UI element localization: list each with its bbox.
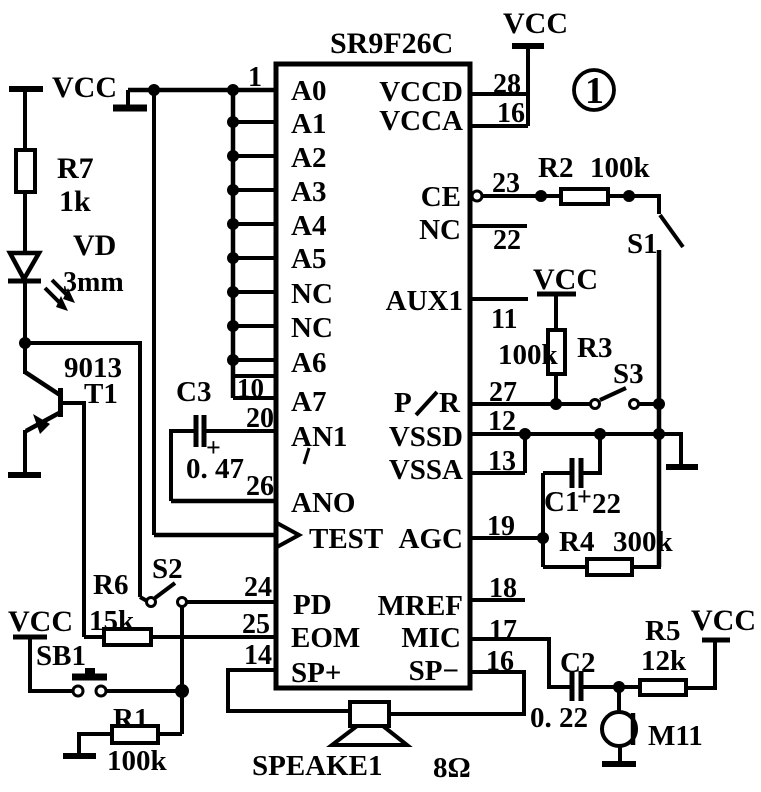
pin 22 number label (493, 225, 521, 256)
S1 label (627, 228, 658, 260)
pin 27 number label (489, 377, 517, 408)
wire address bus vertical (231, 90, 236, 398)
wire SP+ (pin 14) to speaker (228, 670, 350, 711)
VCC power bar (SB1) (13, 635, 47, 640)
svg-text:SP−: SP− (409, 655, 459, 687)
svg-text:12: 12 (488, 406, 516, 437)
wire VD cathode down to node (23, 281, 27, 374)
R5 label (645, 615, 680, 647)
wire C2 to R5 (581, 685, 640, 689)
wire C1 right up to VSSD (581, 434, 600, 473)
capacitor C1 left plate (570, 458, 575, 488)
node A5 (227, 252, 239, 264)
node A6 (227, 354, 239, 366)
wire VSSA stub (pin 13) (470, 471, 525, 475)
C2 label (560, 647, 595, 679)
VCC power bar symbol (top left, feeds R7) (9, 86, 43, 92)
resistor R3 (548, 330, 565, 374)
pin VSSD label (389, 421, 463, 453)
svg-text:R5: R5 (645, 615, 680, 647)
wire C1 left to AGC vertical (543, 471, 572, 475)
pin NC label (left upper) (291, 278, 333, 310)
wire C3 left loop (171, 431, 196, 501)
svg-text:300k: 300k (613, 526, 674, 558)
pin MIC label (401, 622, 461, 654)
C1 label with polarity (544, 482, 621, 520)
wire AGC vertical (C1/R4 left) (541, 473, 545, 567)
R6 value 15k (89, 605, 135, 637)
svg-text:0. 22: 0. 22 (530, 702, 588, 734)
svg-text:NC: NC (419, 214, 461, 246)
circled figure number 1 (574, 70, 614, 110)
svg-text:C1: C1 (544, 486, 579, 518)
pin A3 label (291, 176, 326, 208)
LED VD cathode bar (8, 279, 41, 284)
pin 17 number label (489, 615, 517, 646)
wire MIC (pin 17) to C2 (470, 639, 570, 687)
svg-text:11: 11 (491, 304, 517, 335)
svg-text:A1: A1 (291, 108, 326, 140)
node A2 (227, 150, 239, 162)
wire A2 stub (233, 154, 276, 158)
pin A7 label (291, 386, 326, 418)
pin 13 number label (488, 446, 516, 477)
wire PD (pin 24) to S2 (187, 600, 276, 604)
svg-text:1k: 1k (59, 185, 91, 218)
R7 label (57, 152, 94, 185)
node A3 (227, 184, 239, 196)
VCC rail wire to IC pin 1 (128, 88, 276, 93)
svg-text:27: 27 (489, 377, 517, 408)
svg-text:C3: C3 (176, 376, 211, 408)
svg-text:22: 22 (592, 488, 621, 520)
pin EOM label (291, 622, 360, 654)
svg-text:8Ω: 8Ω (433, 752, 471, 784)
wire A5 stub (233, 256, 276, 260)
svg-text:CE: CE (421, 181, 461, 213)
svg-text:15k: 15k (89, 605, 135, 637)
svg-text:A6: A6 (291, 347, 326, 379)
transistor T1 emitter lead with arrow (26, 412, 61, 434)
wire R2 to S1 (608, 196, 659, 214)
node R2 right (623, 190, 635, 202)
svg-text:23: 23 (492, 168, 520, 199)
svg-text:S1: S1 (627, 228, 658, 260)
wire pin 22 stub (NC) (470, 224, 527, 228)
wire A4 stub (233, 222, 276, 226)
node C2/R5/M11 (613, 681, 625, 693)
node rail/TEST drop (148, 84, 160, 96)
wire pin 16 stub (VCCA) (470, 124, 528, 128)
ground (M11) (602, 761, 636, 767)
pin A4 label (291, 210, 326, 242)
pin MREF label (378, 590, 463, 622)
pin VCCD label (379, 76, 463, 108)
pin SP+ label (291, 657, 341, 689)
wire VSSD line (pin 12) (470, 432, 681, 436)
wire R1 left lead to ground (79, 734, 112, 756)
resistor R6 (104, 629, 151, 645)
wire pin 28 stub (VCCD) (470, 92, 528, 96)
wire R3 to P/R line (554, 374, 558, 404)
wire VCC down to pins 28/16 (526, 46, 530, 126)
svg-text:SR9F26C: SR9F26C (330, 27, 453, 60)
pin NC label (right) (419, 214, 461, 246)
svg-text:+: + (577, 482, 592, 511)
C3 plus sign (206, 433, 221, 462)
svg-text:A2: A2 (291, 142, 326, 174)
svg-text:1: 1 (248, 62, 262, 93)
svg-text:VSSD: VSSD (389, 421, 463, 453)
pin VSSA label (389, 454, 463, 486)
wire VCC bar to R7 (23, 89, 27, 150)
wire A3 stub (233, 188, 276, 192)
svg-text:A3: A3 (291, 176, 326, 208)
svg-text:M11: M11 (648, 720, 703, 752)
LED light arrow 1 (52, 280, 75, 303)
node at LED/collector junction (19, 337, 31, 349)
svg-text:0. 47: 0. 47 (186, 453, 244, 485)
SPEAKE1 label (252, 750, 383, 782)
pin 10 number label (237, 373, 264, 403)
wire AUX1 stub (470, 297, 528, 301)
wire VCC to SB1 (30, 637, 72, 691)
wire MREF stub (pin 18) (470, 598, 525, 602)
pin P/R label (394, 387, 461, 419)
wire S1 lower contact down (657, 250, 662, 567)
pin 18 number label (489, 573, 517, 604)
pin A1 label (291, 108, 326, 140)
svg-text:EOM: EOM (291, 622, 360, 654)
wire node to S2 drop (25, 341, 140, 345)
microphone M11 body (602, 712, 636, 746)
wire R4 right lead (632, 565, 661, 569)
svg-text:1: 1 (585, 70, 604, 112)
node NC upper (227, 286, 239, 298)
pin ANO label (291, 487, 355, 519)
wire NC stub upper (233, 290, 276, 294)
pin 1 number label (248, 62, 262, 93)
resistor R1 (112, 726, 158, 743)
pin 19 number label (487, 511, 515, 542)
svg-text:AN1: AN1 (291, 421, 347, 453)
3mm label (63, 267, 124, 298)
svg-text:22: 22 (493, 225, 521, 256)
R4 label and value (559, 526, 674, 558)
pushbutton SB1 left contact (73, 686, 83, 696)
wire VSSD to ground corner (679, 434, 681, 467)
ground (VSSD) (666, 464, 698, 470)
VCC rail flag (step symbol) (113, 90, 147, 108)
svg-text:ANO: ANO (291, 487, 355, 519)
T1 ref label (84, 378, 118, 410)
node SB1/S2/R1 (175, 684, 189, 698)
ground (R1) (63, 753, 96, 759)
VCC label (top right) (503, 7, 568, 40)
svg-text:VCC: VCC (503, 7, 568, 40)
SB1 label (36, 640, 86, 672)
wire R4 left lead (543, 565, 587, 569)
capacitor C3 right plate (202, 415, 207, 447)
pin A6 label (291, 347, 326, 379)
TEST input arrowhead (277, 523, 299, 547)
svg-text:VCC: VCC (52, 71, 117, 104)
C2 value 0.22 (530, 702, 588, 734)
switch S2 left contact (147, 598, 156, 607)
CE inversion bubble (472, 191, 482, 201)
S2 label (152, 553, 183, 585)
svg-text:MREF: MREF (378, 590, 463, 622)
pin TEST label (309, 523, 383, 555)
R3 label (577, 332, 612, 364)
VD label (73, 229, 116, 262)
R2 label and value (538, 152, 651, 184)
wire microphone to ground (618, 746, 622, 764)
VCC label (SB1) (8, 605, 73, 638)
IC label SR9F26C (330, 27, 453, 60)
resistor R4 (587, 559, 632, 575)
C3 value 0.47 (186, 453, 244, 485)
wire SP- (pin 16) to speaker (389, 672, 524, 714)
R1 label (113, 703, 148, 735)
switch S3 right contact (630, 400, 639, 409)
svg-text:NC: NC (291, 278, 333, 310)
svg-text:VD: VD (73, 229, 116, 262)
speaker SPEAKE1 cone (332, 726, 407, 745)
node A4 (227, 218, 239, 230)
svg-text:3mm: 3mm (63, 267, 124, 298)
svg-text:AUX1: AUX1 (386, 285, 463, 317)
svg-text:A0: A0 (291, 75, 326, 107)
svg-text:10: 10 (237, 373, 264, 403)
svg-text:PD: PD (293, 589, 332, 621)
wire ANO stub (171, 499, 276, 504)
wire pin 27 (P/R) to S3 (470, 402, 591, 406)
svg-text:100k: 100k (590, 152, 651, 184)
R3 value 100k (498, 339, 559, 371)
node CE-R2 (535, 190, 547, 202)
svg-text:13: 13 (488, 446, 516, 477)
svg-text:VCC: VCC (8, 605, 73, 638)
svg-text:VSSA: VSSA (389, 454, 463, 486)
svg-text:C2: C2 (560, 647, 595, 679)
S3 label (613, 358, 644, 390)
speaker impedance 8 ohm (433, 752, 471, 784)
pin 14 number label (244, 640, 272, 671)
wire AN1 to C3 (204, 429, 276, 433)
wire node down to microphone (617, 687, 621, 712)
node S3/S1 (653, 398, 665, 410)
R6 label (93, 569, 128, 601)
wire NC stub lower (233, 324, 276, 328)
pin SP- label (409, 655, 459, 687)
switch S1 blade (660, 215, 683, 247)
speaker SPEAKE1 box (350, 702, 389, 726)
pin CE label (421, 181, 461, 213)
transistor T1 base bar (58, 388, 63, 417)
svg-text:SB1: SB1 (36, 640, 86, 672)
svg-text:A4: A4 (291, 210, 326, 242)
wire CE to R2 (482, 194, 561, 198)
wire pin10 box top (233, 374, 276, 378)
wire SB1 to node (106, 689, 182, 693)
svg-text:18: 18 (489, 573, 517, 604)
transistor T1 base wire (63, 403, 84, 637)
svg-text:16: 16 (486, 646, 514, 677)
pin AUX1 label (386, 285, 463, 317)
svg-text:28: 28 (493, 69, 521, 100)
IC U1 SR9F26C body (276, 64, 470, 688)
capacitor C1 right plate (579, 458, 584, 488)
svg-text:R1: R1 (113, 703, 148, 735)
wire 13-box right vertical (523, 434, 527, 473)
pin NC label (left lower) (291, 312, 333, 344)
svg-text:19: 19 (487, 511, 515, 542)
ground (T1 emitter) (8, 472, 41, 478)
svg-text:100k: 100k (498, 339, 559, 371)
pin 28 number label (493, 69, 521, 100)
capacitor C3 left plate (194, 415, 199, 447)
resistor R7 (16, 150, 35, 192)
svg-text:26: 26 (246, 471, 274, 502)
capacitor C2 right plate (579, 671, 584, 701)
capacitor C2 left plate (570, 671, 575, 701)
pin 12 number label (488, 406, 516, 437)
svg-text:TEST: TEST (309, 523, 383, 555)
svg-text:VCC: VCC (533, 263, 598, 296)
wire pin10 box bottom (A7 stub) (233, 396, 276, 400)
wire R5 to VCC (686, 640, 715, 688)
pin A2 label (291, 142, 326, 174)
wire AGC stub (pin 19) (470, 536, 543, 540)
M11 label (648, 720, 703, 752)
R7 value 1k (59, 185, 91, 218)
LED light arrow 2 (45, 288, 68, 311)
node VSSD/S1 (653, 428, 665, 440)
svg-text:MIC: MIC (401, 622, 461, 654)
svg-text:17: 17 (489, 615, 517, 646)
VCC power bar (top right) (512, 43, 544, 49)
resistor R5 (640, 680, 686, 695)
pushbutton SB1 actuator bar (72, 668, 107, 677)
pushbutton SB1 right contact (96, 686, 106, 696)
pin AN1 label (291, 421, 347, 453)
pin 16 number label (SP-) (486, 646, 514, 677)
switch S3 left contact (591, 400, 600, 409)
C3 label (176, 376, 211, 408)
wire vertical down to S2 (140, 341, 147, 601)
wire R6 to EOM (pin 25) (151, 635, 276, 639)
wire A1 stub (233, 120, 276, 124)
resistor R2 (561, 189, 608, 204)
microphone M11 electrode bar (631, 713, 636, 745)
R1 value 100k (107, 745, 168, 777)
transistor T1 collector lead (25, 372, 60, 395)
node VSSD/13-box (519, 428, 531, 440)
node bus top (227, 84, 239, 96)
pin A5 label (291, 243, 326, 275)
wire VCC to R3 (554, 294, 558, 330)
wire emitter to ground (23, 430, 27, 475)
svg-text:A5: A5 (291, 243, 326, 275)
svg-text:R2: R2 (538, 152, 573, 184)
wire TEST vertical (152, 90, 156, 535)
svg-text:T1: T1 (84, 378, 118, 410)
VCC label (top left) (52, 71, 117, 104)
VCC label (R3) (533, 263, 598, 296)
pin 11 number label (491, 304, 517, 335)
pin PD label (293, 589, 332, 621)
svg-text:R6: R6 (93, 569, 128, 601)
svg-text:AGC: AGC (399, 523, 463, 555)
svg-text:S3: S3 (613, 358, 644, 390)
svg-text:100k: 100k (107, 745, 168, 777)
svg-text:R: R (439, 387, 461, 419)
svg-text:12k: 12k (641, 645, 687, 677)
svg-text:VCC: VCC (691, 604, 756, 637)
wire S3 to S1 vertical (638, 402, 659, 406)
pin 23 number label (492, 168, 520, 199)
node VSSD/C1 (594, 428, 606, 440)
svg-text:16: 16 (497, 98, 525, 129)
wire TEST horizontal to IC (154, 533, 277, 538)
svg-text:NC: NC (291, 312, 333, 344)
wire S2 down to R1 node (180, 606, 184, 734)
svg-text:24: 24 (244, 572, 272, 603)
svg-text:P: P (394, 387, 412, 419)
wire A6 stub (233, 358, 276, 362)
svg-text:A7: A7 (291, 386, 326, 418)
pin 24 number label (244, 572, 272, 603)
VCC power bar (R3) (537, 292, 576, 297)
svg-text:R4: R4 (559, 526, 594, 558)
VCC power bar (R5) (702, 638, 730, 643)
svg-text:R3: R3 (577, 332, 612, 364)
node AGC (537, 532, 549, 544)
pin VCCA label (379, 105, 463, 137)
pin AGC label (399, 523, 463, 555)
node A1 (227, 116, 239, 128)
VCC label (R5) (691, 604, 756, 637)
pin 20 number label (246, 403, 274, 434)
switch S2 right contact (178, 598, 187, 607)
wire R7 to VD (23, 192, 27, 254)
svg-text:VCCA: VCCA (379, 105, 463, 137)
AN1 tick mark (304, 448, 309, 464)
pin 25 number label (242, 609, 270, 640)
pin 26 number label (246, 471, 274, 502)
node NC lower (227, 320, 239, 332)
switch S3 blade (600, 388, 626, 400)
node R3/PR (550, 398, 562, 410)
T1 type label 9013 (64, 352, 122, 384)
R5 value 12k (641, 645, 687, 677)
wire R1 right lead (158, 732, 182, 736)
svg-text:25: 25 (242, 609, 270, 640)
pin 16 number label (VCCA) (497, 98, 525, 129)
svg-text:SPEAKE1: SPEAKE1 (252, 750, 383, 782)
svg-text:14: 14 (244, 640, 272, 671)
svg-text:S2: S2 (152, 553, 183, 585)
switch S2 blade (155, 583, 175, 598)
svg-text:VCCD: VCCD (379, 76, 463, 108)
svg-text:SP+: SP+ (291, 657, 341, 689)
wire R6 left lead (84, 635, 104, 639)
svg-text:R7: R7 (57, 152, 94, 185)
pin A0 label (291, 75, 326, 107)
LED VD triangle (10, 253, 39, 279)
